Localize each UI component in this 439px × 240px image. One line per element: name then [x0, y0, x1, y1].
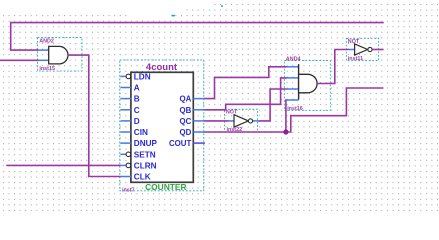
counter U1 4count inst7 [120, 60, 205, 194]
and-gate AND4 inst16 [284, 56, 330, 112]
pin C [121, 106, 140, 115]
svg-text:NOT: NOT [348, 39, 360, 45]
svg-text:AND2: AND2 [39, 38, 54, 44]
wire CLRN net from left edge [6, 164, 120, 166]
junction QD node [283, 129, 288, 134]
wire QB to AND4 input 2 [205, 78, 287, 110]
svg-text:LDN: LDN [134, 72, 151, 81]
wire AND2 output to counter CLK [67, 55, 120, 176]
svg-text:QA: QA [179, 95, 191, 104]
inverter NOT inst11 [346, 38, 378, 62]
svg-text:B: B [134, 95, 140, 104]
svg-text:DNUP: DNUP [134, 139, 158, 148]
svg-text:inst7: inst7 [122, 188, 135, 194]
svg-text:CLRN: CLRN [134, 161, 157, 170]
pin LDN [121, 72, 151, 81]
pin CLRN [121, 161, 157, 170]
svg-text:4count: 4count [146, 62, 178, 73]
svg-text:NOT: NOT [226, 109, 238, 115]
svg-text:COUNTER: COUNTER [145, 182, 186, 192]
wire junction to AND4 input 4 [285, 100, 288, 132]
svg-text:inst16: inst16 [287, 106, 303, 112]
wire NOT inst11 output dangling [372, 49, 383, 51]
svg-text:inst11: inst11 [348, 56, 363, 62]
svg-text:QC: QC [179, 117, 191, 126]
pin QB [179, 106, 204, 115]
pin QD [179, 128, 204, 137]
svg-text:CIN: CIN [134, 128, 148, 137]
wire QC to NOT inst22 input [205, 120, 229, 122]
wire NOT inst22 output to AND4 input 3 [259, 89, 287, 121]
wire net to AND2 input 1 (top rail) [11, 23, 384, 50]
svg-text:QD: QD [179, 128, 191, 137]
pin CIN [121, 128, 148, 137]
pin D [121, 117, 140, 126]
pin QC [179, 117, 204, 126]
wire junction branch to right dangling end [286, 88, 384, 132]
svg-text:AND4: AND4 [286, 56, 301, 62]
svg-text:SETN: SETN [134, 150, 156, 159]
inverter NOT inst22 [225, 109, 259, 133]
and-gate AND2 inst15 [38, 38, 82, 73]
wire QD to junction [205, 131, 286, 133]
svg-text:A: A [134, 84, 140, 93]
pin B [121, 95, 140, 104]
svg-text:D: D [134, 117, 140, 126]
wire AND4 output to NOT inst11 input [317, 50, 348, 84]
pin A [121, 84, 140, 93]
pin COUT [169, 139, 205, 148]
svg-text:CLK: CLK [134, 173, 151, 182]
pin QA [179, 95, 204, 104]
svg-text:QB: QB [179, 106, 191, 115]
pin CLK [121, 173, 151, 182]
wire AND2 input 2 from left edge [0, 59, 39, 61]
svg-text:C: C [134, 106, 140, 115]
svg-text:COUT: COUT [169, 139, 192, 148]
pin SETN [121, 150, 156, 159]
svg-text:inst15: inst15 [39, 66, 55, 72]
pin DNUP [121, 139, 158, 148]
wire QA to AND4 input 1 [205, 67, 287, 99]
